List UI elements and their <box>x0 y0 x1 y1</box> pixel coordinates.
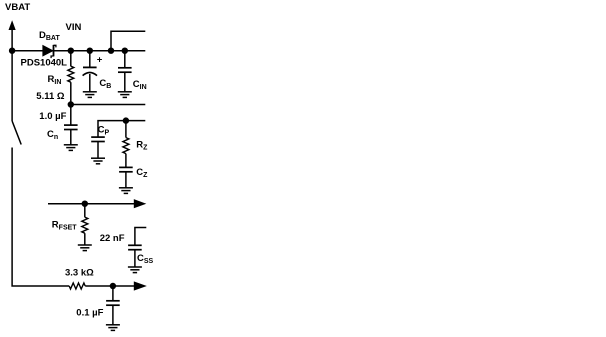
svg-text:22 nF: 22 nF <box>100 233 125 244</box>
ground Cn <box>64 145 78 151</box>
svg-text:VBAT: VBAT <box>5 2 30 13</box>
ground CSS <box>128 267 142 273</box>
capacitor CP <box>91 137 105 141</box>
wire SS pin to CSS <box>135 228 146 246</box>
capacitor CIN <box>118 68 132 72</box>
junction CB node <box>87 48 93 54</box>
junction RFSET node <box>82 201 88 207</box>
wire to VIN1 pin <box>111 31 145 51</box>
svg-text:CP: CP <box>98 125 110 137</box>
capacitor CSS <box>128 245 142 249</box>
wire FSET/SYNC input <box>48 203 134 205</box>
svg-text:VIN: VIN <box>66 22 82 33</box>
svg-text:PDS1040L: PDS1040L <box>21 58 68 69</box>
capacitor CB polarized <box>83 66 97 68</box>
wire EN rail <box>85 285 134 287</box>
junction RIN top node <box>68 48 74 54</box>
svg-text:5.11 Ω: 5.11 Ω <box>36 91 65 102</box>
wire Cn top stem <box>70 105 72 126</box>
svg-text:0.1 µF: 0.1 µF <box>76 307 103 318</box>
wire 0.1uF bottom stem <box>112 305 114 325</box>
svg-text:RZ: RZ <box>136 139 148 151</box>
svg-text:Cn: Cn <box>47 129 58 141</box>
wire Cn bottom stem <box>70 130 72 145</box>
capacitor Cn <box>64 125 78 129</box>
wire CIN bottom stem <box>124 72 126 92</box>
svg-text:+: + <box>97 55 103 66</box>
svg-text:CB: CB <box>99 78 111 90</box>
wire VBAT input rail <box>12 50 145 52</box>
svg-text:DBAT: DBAT <box>39 30 60 42</box>
wire RZ to CZ <box>125 154 127 168</box>
svg-text:RFSET: RFSET <box>52 220 77 232</box>
ground 0.1uF <box>106 325 120 331</box>
ground CB <box>83 92 97 98</box>
wire CB bottom stem <box>89 74 91 92</box>
wire VBAT down to switch <box>11 51 13 121</box>
arrow into EN pin <box>134 281 147 290</box>
svg-text:CZ: CZ <box>136 167 148 179</box>
power flag VBAT arrow <box>9 20 16 30</box>
svg-text:3.3 kΩ: 3.3 kΩ <box>65 267 94 278</box>
ground CP <box>91 158 105 164</box>
junction AVIN node <box>68 101 74 107</box>
ground CZ <box>119 188 133 194</box>
wire CP bottom stem <box>97 142 99 159</box>
wire COMP pin to compensation network <box>98 121 145 138</box>
wire CZ bottom stem <box>125 172 127 188</box>
switch blade <box>12 121 21 145</box>
ground RFSET <box>78 245 92 251</box>
capacitor CZ <box>119 167 133 171</box>
junction EN node <box>110 283 116 289</box>
svg-text:RIN: RIN <box>48 74 62 86</box>
svg-text:1.0 µF: 1.0 µF <box>39 111 66 122</box>
capacitor 0.1uF EN <box>106 301 120 305</box>
junction VBAT node <box>9 48 15 54</box>
wire RZ top stem <box>125 121 127 138</box>
diode DBAT PDS1040L <box>43 45 56 58</box>
resistor 3.3k EN <box>69 283 85 289</box>
junction CIN node <box>122 48 128 54</box>
junction COMP node <box>123 117 129 123</box>
wire RIN bottom stem <box>70 82 72 104</box>
svg-text:CSS: CSS <box>137 253 154 265</box>
resistor RZ <box>123 138 129 154</box>
resistor RIN <box>68 66 74 82</box>
junction VIN1 riser node <box>108 48 114 54</box>
svg-text:CIN: CIN <box>133 79 147 91</box>
wire CB top stem <box>89 51 91 67</box>
wire RIN top stem <box>70 51 72 67</box>
wire 0.1uF top stem <box>112 286 114 301</box>
wire RFSET top stem <box>84 204 86 218</box>
wire switch bottom to EN rail <box>12 148 69 287</box>
wire CIN top stem <box>124 51 126 68</box>
arrow into FSET/SYNC pin <box>134 199 147 208</box>
resistor RFSET <box>82 217 88 233</box>
ground CIN <box>118 92 132 98</box>
wire RFSET bottom stem <box>84 233 86 245</box>
wire to AVIN pin <box>71 104 146 106</box>
wire CSS bottom stem <box>134 250 136 267</box>
